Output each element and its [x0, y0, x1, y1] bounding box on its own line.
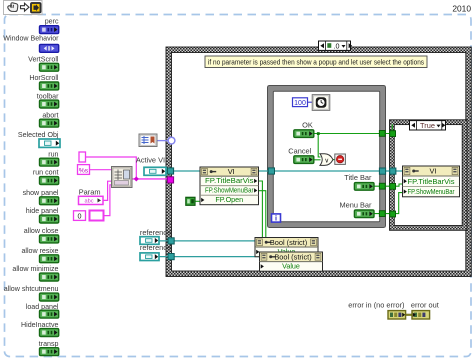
svg-text:show panel: show panel	[23, 189, 59, 197]
svg-text:FP.TitleBarVis: FP.TitleBarVis	[205, 176, 254, 185]
svg-text:reference: reference	[140, 243, 171, 252]
svg-text:VI: VI	[430, 167, 437, 176]
svg-text:Active VI: Active VI	[136, 156, 165, 165]
svg-text:reference: reference	[140, 228, 171, 237]
svg-text:.0: .0	[334, 42, 340, 51]
svg-text:∨: ∨	[324, 157, 329, 164]
svg-text:error in (no error): error in (no error)	[348, 300, 404, 309]
svg-text:Title Bar: Title Bar	[344, 173, 372, 182]
svg-text:Value: Value	[282, 262, 300, 271]
svg-text:allow close: allow close	[24, 227, 59, 235]
svg-text:OK: OK	[302, 120, 313, 129]
svg-text:run: run	[48, 150, 58, 158]
svg-text:2010: 2010	[452, 4, 471, 14]
svg-text:hide panel: hide panel	[26, 207, 59, 215]
svg-text:Window Behavior: Window Behavior	[3, 35, 59, 43]
svg-text:VertScroll: VertScroll	[28, 55, 59, 63]
svg-text:Bool (strict): Bool (strict)	[270, 238, 307, 247]
svg-text:abort: abort	[42, 112, 58, 120]
svg-text:0: 0	[78, 211, 82, 220]
svg-text:VI: VI	[228, 167, 235, 176]
svg-text:allow minimize: allow minimize	[12, 265, 58, 273]
svg-text:Param: Param	[79, 187, 101, 196]
svg-text:100: 100	[294, 100, 306, 107]
svg-text:abc: abc	[84, 199, 93, 205]
svg-text:transp: transp	[39, 340, 59, 348]
svg-text:i: i	[275, 214, 277, 223]
svg-text:%s: %s	[79, 167, 89, 174]
svg-text:run cont: run cont	[33, 169, 59, 177]
svg-text:Selected Obj: Selected Obj	[18, 131, 59, 139]
svg-text:True: True	[420, 121, 435, 130]
svg-text:allow resixe: allow resixe	[21, 247, 58, 255]
svg-text:HorScroll: HorScroll	[29, 74, 59, 82]
svg-text:Cancel: Cancel	[288, 146, 311, 155]
svg-text:error out: error out	[411, 300, 439, 309]
svg-text:perc: perc	[45, 17, 59, 25]
svg-text:allow shtcutmenu: allow shtcutmenu	[4, 285, 59, 293]
svg-text:FP.ShowMenuBar: FP.ShowMenuBar	[205, 186, 254, 195]
svg-text:FP.ShowMenuBar: FP.ShowMenuBar	[408, 187, 455, 196]
svg-text:Bool (strict): Bool (strict)	[274, 252, 311, 261]
svg-text:Menu Bar: Menu Bar	[339, 201, 372, 210]
svg-text:FP.TitleBarVis: FP.TitleBarVis	[408, 177, 455, 186]
svg-text:FP.Open: FP.Open	[215, 195, 243, 204]
svg-text:if no parameter is passed then: if no parameter is passed then show a po…	[208, 57, 424, 66]
svg-text:HideInactve: HideInactve	[21, 321, 59, 329]
svg-text:toolbar: toolbar	[37, 93, 59, 101]
